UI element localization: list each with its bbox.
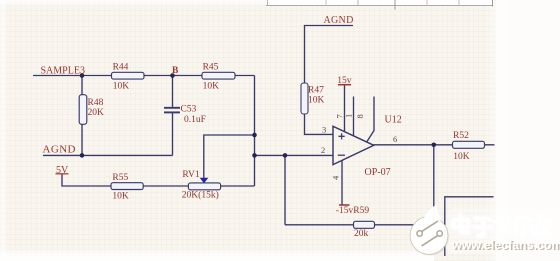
svg-text:10K: 10K	[112, 192, 128, 202]
watermark chinese text	[453, 215, 551, 236]
resistor R55	[111, 173, 143, 202]
svg-text:www.elecfans.com: www.elecfans.com	[451, 238, 560, 252]
svg-text:2: 2	[321, 145, 325, 155]
node dot B	[170, 73, 175, 78]
svg-text:6: 6	[393, 134, 397, 144]
svg-text:10K: 10K	[203, 81, 220, 91]
resistor R44	[112, 63, 145, 92]
wire 15v to pin7	[344, 85, 346, 133]
wire R47 to pin3	[305, 114, 333, 134]
power port -15v	[336, 205, 354, 216]
wire C53 vertical	[172, 76, 174, 108]
wire pin2 net	[255, 154, 333, 156]
wire R55 to RV1	[143, 185, 189, 187]
junction dots	[80, 73, 436, 158]
svg-text:SAMPLE3: SAMPLE3	[41, 66, 85, 77]
svg-text:R55: R55	[112, 173, 128, 183]
node dot AGND/R48	[80, 153, 85, 158]
wire SAMPLE3 main horizontal	[33, 75, 255, 77]
wire feedback bottom horizontal	[285, 224, 434, 226]
resistor R47	[301, 83, 325, 114]
svg-text:8: 8	[355, 114, 365, 118]
op-amp U12	[333, 115, 402, 179]
svg-text:U12: U12	[385, 115, 402, 126]
svg-text:20k: 20k	[354, 229, 369, 239]
wire RV1 wiper to node	[204, 135, 255, 178]
watermark glow backdrop	[446, 208, 560, 254]
svg-text:0.1uF: 0.1uF	[184, 115, 206, 125]
top toolbar strip	[266, 0, 494, 6]
svg-text:R45: R45	[203, 63, 219, 73]
potentiometer RV1	[182, 170, 221, 201]
resistor R45	[202, 63, 235, 92]
svg-text:B: B	[172, 66, 179, 76]
node dot wiper net	[252, 133, 257, 138]
wire bottom right L	[445, 197, 494, 256]
wire main vertical right of R45	[254, 76, 256, 187]
watermark chinese shadow	[455, 217, 553, 238]
svg-text:R52: R52	[453, 131, 469, 141]
svg-text:20K(15k): 20K(15k)	[182, 189, 219, 200]
svg-text:10K: 10K	[113, 81, 130, 91]
wire feedback up to output	[433, 145, 435, 225]
wire RV1 right terminal	[221, 185, 255, 187]
svg-text:20K: 20K	[88, 108, 105, 118]
wire AGND left horizontal	[43, 154, 173, 156]
svg-text:OP-07: OP-07	[365, 167, 391, 178]
capacitor C53	[164, 105, 206, 126]
resistor R59	[353, 206, 374, 239]
svg-text:-15v: -15v	[336, 206, 354, 216]
power port 5V	[56, 165, 70, 176]
node dot pin2 net	[252, 153, 257, 158]
svg-text:R47: R47	[308, 86, 324, 96]
wire pin1 stub	[353, 97, 355, 137]
wire pin4	[341, 160, 343, 205]
watermark logo elecfans	[410, 204, 449, 256]
wire pin8 stub	[367, 97, 374, 142]
resistor R48	[79, 95, 104, 125]
power port 15v	[337, 76, 352, 86]
svg-text:10K: 10K	[453, 152, 470, 162]
svg-text:10K: 10K	[308, 96, 325, 106]
node dot feedback	[283, 153, 288, 158]
svg-text:1: 1	[344, 114, 354, 118]
wire AGND top	[305, 26, 354, 85]
svg-text:C53: C53	[181, 105, 197, 115]
svg-text:AGND: AGND	[43, 144, 76, 156]
svg-text:R48: R48	[88, 98, 104, 108]
svg-text:RV1: RV1	[182, 170, 199, 180]
wire output	[374, 144, 495, 146]
svg-text:R59: R59	[353, 206, 369, 216]
resistor R52	[453, 131, 485, 162]
wire 5V to R55	[62, 174, 112, 186]
svg-text:3: 3	[322, 124, 326, 134]
svg-text:AGND: AGND	[324, 15, 354, 26]
svg-text:R44: R44	[113, 63, 129, 73]
wire feedback down	[284, 155, 286, 224]
node dot SAMPLE3/R48	[80, 73, 85, 78]
node dot output	[432, 143, 437, 148]
wire R48 branch vertical	[81, 76, 83, 156]
